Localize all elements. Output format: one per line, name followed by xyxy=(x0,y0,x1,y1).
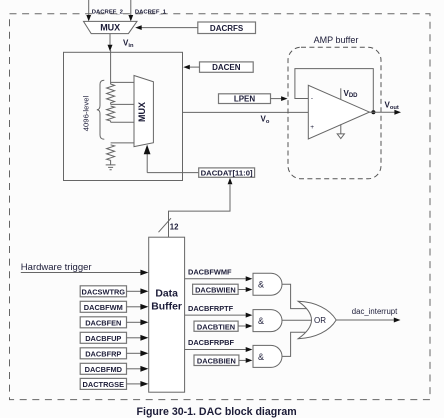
svg-text:VDD: VDD xyxy=(344,89,359,99)
svg-text:DACREF_2: DACREF_2 xyxy=(92,10,124,16)
brace 4096-level xyxy=(97,80,105,139)
node tap 1 xyxy=(111,81,134,83)
svg-text:LPEN: LPEN xyxy=(234,95,256,104)
register DACEN xyxy=(200,62,254,72)
register DACBWIEN xyxy=(193,284,239,294)
svg-text:Vo: Vo xyxy=(261,115,270,126)
svg-text:DACBFMD: DACBFMD xyxy=(85,365,123,374)
svg-text:DACBTIEN: DACBTIEN xyxy=(197,322,235,331)
gate AND1 xyxy=(253,273,282,295)
wire DACTRGSE to buffer xyxy=(127,383,142,385)
mux reference-select trapezoid xyxy=(84,21,138,33)
svg-text:DACREF_1: DACREF_1 xyxy=(135,10,167,16)
svg-text:DACBBIEN: DACBBIEN xyxy=(197,357,236,366)
svg-text:Figure 30-1. DAC block diagram: Figure 30-1. DAC block diagram xyxy=(137,406,297,418)
resistor R middle xyxy=(107,106,115,122)
wire DACBFRP to buffer xyxy=(127,352,142,354)
register DACSWTRG xyxy=(80,286,126,297)
wire DACBFRPBF to AND3 xyxy=(185,349,246,351)
gate OR1 xyxy=(298,301,336,338)
node tap 2 xyxy=(111,103,134,105)
svg-text:DACBFRP: DACBFRP xyxy=(85,350,121,359)
svg-text:DACBFRPBF: DACBFRPBF xyxy=(188,338,234,347)
wire AND2 to OR xyxy=(282,319,312,321)
wire hardware trigger xyxy=(21,272,142,274)
node Vin wire MUX to ladder block xyxy=(109,34,111,46)
wire LPEN to amp xyxy=(271,98,282,100)
register DACRFS xyxy=(198,22,256,34)
register DACBFEN xyxy=(80,317,126,328)
DAC resistor-ladder block box xyxy=(64,52,183,180)
svg-text:Vin: Vin xyxy=(123,39,134,50)
gate AND3 xyxy=(253,345,282,367)
svg-text:12: 12 xyxy=(170,223,179,232)
svg-text:Vout: Vout xyxy=(385,101,399,112)
register DACDAT[11:0] xyxy=(199,168,255,177)
svg-text:&: & xyxy=(258,316,264,326)
svg-text:+: + xyxy=(310,124,314,131)
svg-text:&: & xyxy=(258,280,264,290)
mux ladder-tap select trapezoid xyxy=(134,76,153,147)
wire DACBTIEN to AND2 xyxy=(238,325,246,327)
wire AND3 to OR xyxy=(282,332,311,356)
register DACBBIEN xyxy=(194,355,239,366)
wire DACBFEN to buffer xyxy=(127,321,142,323)
svg-text:DACBWIEN: DACBWIEN xyxy=(195,286,236,295)
svg-text:DACRFS: DACRFS xyxy=(210,24,244,33)
wire DACSWTRG to buffer xyxy=(127,290,142,292)
register DACBTIEN xyxy=(194,321,238,331)
svg-text:DACBFWM: DACBFWM xyxy=(84,303,123,312)
bus width slash xyxy=(159,218,172,232)
wire feedback loop xyxy=(295,69,373,110)
wire VDD supply xyxy=(340,88,342,99)
wire DACBFWMF to AND1 xyxy=(185,278,246,280)
register DACBFRP xyxy=(80,348,126,359)
wire Vout output xyxy=(369,111,394,113)
wire ladder feed xyxy=(110,50,112,84)
svg-text:-: - xyxy=(311,95,313,102)
svg-text:MUX: MUX xyxy=(137,102,147,122)
AMP buffer dashed enclosure xyxy=(288,47,381,179)
ground op-amp xyxy=(340,124,342,134)
register LPEN xyxy=(219,94,271,104)
wire DACBFMD to buffer xyxy=(127,368,142,370)
wire dac_interrupt output xyxy=(336,319,394,321)
wire data bus from buffer to DACDAT xyxy=(169,185,231,238)
gate AND2 xyxy=(253,310,282,332)
wire mux select from DACDAT xyxy=(146,154,148,173)
wire DACEN to block xyxy=(190,66,200,68)
svg-text:Data: Data xyxy=(155,289,178,300)
svg-text:DACDAT[11:0]: DACDAT[11:0] xyxy=(201,169,253,178)
svg-text:DACTRGSE: DACTRGSE xyxy=(83,380,125,389)
svg-text:DACEN: DACEN xyxy=(212,63,241,72)
node tap 4 xyxy=(111,142,134,144)
svg-text:Hardware trigger: Hardware trigger xyxy=(21,262,92,273)
svg-text:DACBFUP: DACBFUP xyxy=(85,334,121,343)
svg-text:&: & xyxy=(258,352,264,362)
resistor R bottom xyxy=(107,145,115,161)
svg-text:AMP buffer: AMP buffer xyxy=(314,35,359,45)
wire DACBBIEN to AND3 xyxy=(239,359,246,361)
wire DACDAT to mux select xyxy=(147,172,199,174)
wire AND1 to OR xyxy=(282,284,311,308)
ground ladder xyxy=(106,161,116,170)
register DACBFWM xyxy=(80,301,126,312)
svg-text:Buffer: Buffer xyxy=(151,301,182,312)
op-amp U1 xyxy=(308,85,369,139)
register DACBFMD xyxy=(80,363,126,374)
svg-text:DACBFWMF: DACBFWMF xyxy=(188,267,232,276)
wire DACBFRPTF to AND2 xyxy=(185,314,246,316)
wire DACREF_1 input xyxy=(130,0,132,16)
wire DACRFS to MUX xyxy=(142,27,198,29)
wire DACBFWM to buffer xyxy=(127,306,142,308)
wire DACBWIEN to AND1 xyxy=(238,289,246,291)
svg-text:OR: OR xyxy=(314,316,326,325)
wire DACREF_2 input xyxy=(88,0,90,16)
svg-text:DACBFEN: DACBFEN xyxy=(85,319,121,328)
node tap 3 xyxy=(111,121,134,123)
svg-text:DACBFRPTF: DACBFRPTF xyxy=(188,304,234,313)
register DACBFUP xyxy=(80,332,126,343)
svg-text:4096-level: 4096-level xyxy=(82,95,91,131)
svg-text:DACSWTRG: DACSWTRG xyxy=(82,288,126,297)
svg-text:MUX: MUX xyxy=(100,23,120,33)
resistor R top xyxy=(107,84,115,104)
register DACTRGSE xyxy=(80,378,126,389)
node Vo wire ladder block to op-amp xyxy=(183,111,309,113)
Data Buffer block xyxy=(149,237,185,392)
node output junction dot xyxy=(371,110,375,114)
svg-text:dac_interrupt: dac_interrupt xyxy=(352,307,398,316)
wire DACBFUP to buffer xyxy=(127,337,142,339)
